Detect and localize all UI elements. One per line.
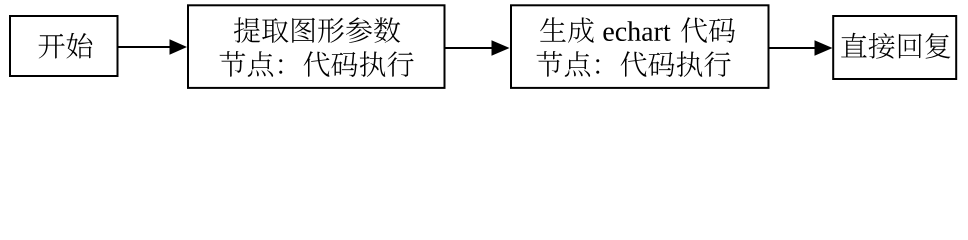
wire arrow 2 shaft [445,47,493,49]
label 提取图形参数 (box 2 line 1) [234,17,400,43]
label 代码 (box 3 line 1) [681,17,735,43]
label echart (box 3 line 1) [603,21,670,41]
wire arrow 1 shaft [118,46,171,48]
label 直接回复 (box 4) [841,33,950,59]
arrowhead 2 [492,40,510,56]
label 节点：代码执行 (box 2 line 2) [220,51,414,77]
arrowhead 3 [815,40,833,56]
label 节点：代码执行 (box 3 line 2) [537,51,731,77]
arrowhead 1 [170,39,188,55]
label 开始 (box 1) [39,33,93,59]
wire arrow 3 shaft [769,47,816,49]
process box 提取图形参数 [188,5,445,88]
process box 生成echart代码 [511,5,769,88]
label 生成 (box 3 line 1) [540,17,594,43]
process box 开始 (start) [10,16,118,76]
process box 直接回复 [833,16,956,79]
